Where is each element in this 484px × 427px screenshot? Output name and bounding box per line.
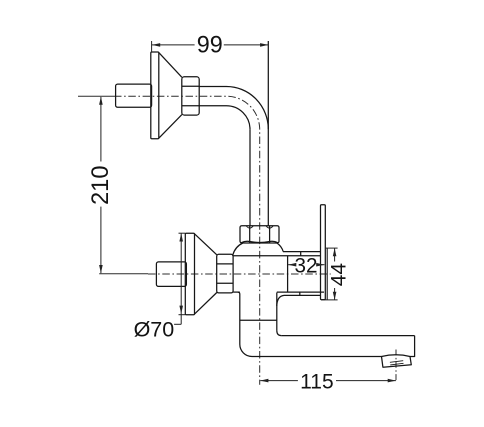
svg-text:32: 32 [295, 253, 318, 277]
svg-text:99: 99 [197, 31, 223, 58]
svg-text:44: 44 [328, 263, 351, 287]
svg-text:115: 115 [300, 370, 333, 393]
svg-text:Ø70: Ø70 [134, 317, 175, 341]
svg-text:210: 210 [87, 166, 114, 206]
